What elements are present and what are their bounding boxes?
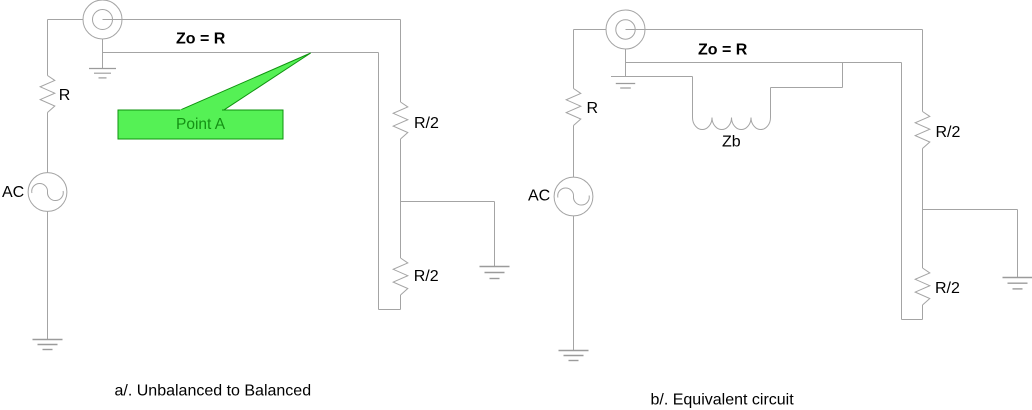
wire: Zb right lead (circuit b) [770, 88, 772, 118]
wire: lower R/2 to bottom return (circuit a) [400, 295, 402, 310]
wire: AC source to ground (circuit b) [573, 216, 575, 351]
ground at AC source (circuit b) [559, 351, 589, 361]
AC source V1 (circuit a) [28, 173, 67, 212]
svg-text:Zo = R: Zo = R [698, 42, 748, 59]
wire: Zb branch horizontal (circuit b) [771, 87, 843, 89]
wire: return line back to shield node (circuit b) [901, 63, 903, 320]
wire: shield return line (circuit b) [626, 62, 902, 64]
coax connector J1 (circuit a) [83, 0, 122, 39]
wire: center tap ground drop (circuit b) [1017, 210, 1019, 278]
wire: center tap to ground (circuit a) [401, 201, 495, 203]
wire: upper R/2 to lower R/2 through center tap (circuit b) [922, 149, 924, 269]
svg-text:AC: AC [528, 188, 550, 205]
callout box Point A (circuit a) [118, 110, 283, 139]
wire: return line back to shield node (circuit a) [378, 53, 380, 310]
svg-text:R/2: R/2 [936, 124, 961, 141]
svg-text:Zb: Zb [722, 134, 741, 151]
wire: center tap ground drop (circuit a) [494, 202, 496, 267]
coax connector J2 (circuit b) [606, 10, 645, 49]
wire: shield return line, node Point A (circuit a) [103, 52, 379, 54]
wire: top wire down to upper R/2 (circuit b) [922, 30, 924, 112]
wire: resistor R to AC source (circuit b) [573, 126, 575, 178]
wire: bottom return horizontal (circuit a) [379, 309, 401, 311]
wire: resistor R to AC source (circuit a) [47, 113, 49, 173]
resistor R/2 upper (circuit b) [915, 112, 930, 149]
wire: J1 center pin to R/2 divider top, net Zo (circuit a) [103, 19, 401, 21]
resistor R (circuit b) [566, 89, 581, 126]
wire: top wire down to upper R/2 (circuit a) [400, 20, 402, 103]
callout pointer wedge to node Point A (circuit a) [179, 53, 311, 111]
wire: lower R/2 to bottom return (circuit b) [922, 305, 924, 320]
svg-text:Zo = R: Zo = R [176, 31, 226, 48]
ground at AC source (circuit a) [33, 340, 63, 350]
resistor R/2 lower (circuit b) [915, 268, 930, 305]
wire: bottom return horizontal (circuit b) [902, 319, 923, 321]
svg-text:R/2: R/2 [935, 280, 960, 297]
inductor Zb (circuit b) [693, 118, 771, 130]
wire: J2 shield to ground (circuit b) [625, 49, 627, 77]
wire: source branch top to coax connector J2 (circuit b) [574, 29, 607, 31]
svg-text:R: R [59, 87, 71, 104]
svg-text:Point A: Point A [176, 116, 226, 133]
wire: AC source to ground (circuit a) [47, 211, 49, 339]
resistor R/2 lower (circuit a) [393, 258, 408, 295]
wire: upper R/2 to lower R/2 through center tap (circuit a) [400, 139, 402, 258]
svg-text:AC: AC [2, 184, 24, 201]
wire: center tap to ground (circuit b) [923, 209, 1018, 211]
wire: top left vertical down to resistor R (circuit a) [47, 20, 49, 76]
wire: top left vertical down to resistor R (circuit b) [573, 30, 575, 89]
svg-text:R: R [587, 100, 599, 117]
wire: source branch top to coax connector J1 (circuit a) [48, 19, 84, 21]
AC source V2 (circuit b) [554, 177, 593, 216]
callout wedge base cover (circuit a) [180, 110, 222, 112]
svg-text:b/. Equivalent circuit: b/. Equivalent circuit [651, 392, 795, 409]
wire: shield line drop to Zb branch (circuit b) [842, 63, 844, 88]
ground at connector J1 shield (circuit a) [89, 69, 116, 78]
wire: Zb left lead (circuit b) [692, 77, 694, 118]
ground at divider center tap (circuit b) [1003, 278, 1032, 289]
ground at connector J2 shield (circuit b) [616, 84, 635, 89]
resistor R (circuit a) [40, 76, 55, 113]
svg-text:a/. Unbalanced to Balanced: a/. Unbalanced to Balanced [115, 382, 312, 399]
resistor R/2 upper (circuit a) [393, 102, 408, 139]
wire: J2 center pin to R/2 divider top, net Zo (circuit b) [626, 29, 923, 31]
svg-text:R/2: R/2 [414, 115, 439, 132]
wire: J1 shield to ground (circuit a) [102, 39, 104, 69]
svg-text:R/2: R/2 [414, 268, 439, 285]
wire: ground bar to balance impedance Zb left lead (circuit b) [611, 76, 693, 78]
ground at divider center tap (circuit a) [480, 267, 510, 279]
